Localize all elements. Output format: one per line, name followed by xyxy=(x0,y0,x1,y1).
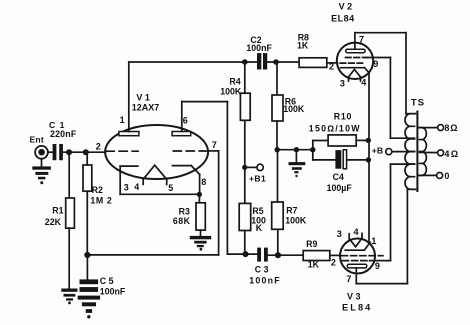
svg-text:4: 4 xyxy=(134,182,139,192)
node I (C3/R7/R9) xyxy=(275,252,281,258)
svg-text:TS: TS xyxy=(411,98,425,109)
wire R7 up to rail xyxy=(277,150,279,202)
pin labels 3 4 5 8 xyxy=(124,177,207,193)
svg-text:V 1: V 1 xyxy=(136,93,150,103)
resistor R3 68K xyxy=(173,203,205,230)
wire node E down to R4 xyxy=(244,62,246,93)
svg-text:7: 7 xyxy=(346,274,351,284)
svg-text:Ent: Ent xyxy=(30,135,44,145)
resistor R7 100K xyxy=(272,202,307,229)
grid 1 dashed line xyxy=(106,150,138,152)
wire plate2 net: pin6 riser down and right xyxy=(227,102,257,255)
node A (C1/R1 junction) xyxy=(66,149,72,155)
wire +B to transformer center tap xyxy=(392,151,414,153)
node G (+B1) xyxy=(242,165,247,170)
svg-text:100K: 100K xyxy=(283,104,305,114)
pin 8 lead xyxy=(199,175,201,195)
cathode riser wire V2-V3 xyxy=(368,73,370,243)
svg-text:3: 3 xyxy=(340,78,345,88)
cathode V2 xyxy=(341,68,370,73)
terminal +B1 xyxy=(249,164,266,183)
wire node F down to R6 xyxy=(276,62,278,95)
ground (R3) xyxy=(190,236,211,251)
terminal +B xyxy=(372,146,392,156)
svg-text:22K: 22K xyxy=(45,217,62,227)
plate bar V2 xyxy=(346,49,365,53)
node H (R5/C3) xyxy=(243,251,249,257)
wire pin 6 plate riser top xyxy=(182,102,228,132)
node E (R4 top) xyxy=(242,59,248,65)
svg-text:100K: 100K xyxy=(220,86,242,96)
svg-text:12AX7: 12AX7 xyxy=(132,102,160,112)
svg-text:4: 4 xyxy=(354,227,359,237)
grid row1 V2 (pin 9) xyxy=(346,57,391,59)
wire node C right to grid2 riser xyxy=(87,254,218,256)
wire grid2 riser up xyxy=(218,151,220,255)
svg-text:1: 1 xyxy=(371,236,376,246)
svg-text:100nF: 100nF xyxy=(246,43,272,53)
svg-text:2: 2 xyxy=(331,257,336,267)
plate bar triode 2 xyxy=(172,132,191,136)
resistor R10 150R/10W xyxy=(309,112,368,150)
grid row2 V3 (pin 9) xyxy=(343,260,370,262)
wire pin 1 up xyxy=(128,62,130,132)
svg-text:3: 3 xyxy=(337,229,342,239)
svg-text:R7: R7 xyxy=(286,205,297,215)
wire R3 to ground xyxy=(200,230,202,236)
resistor R4 100K xyxy=(220,77,250,121)
svg-text:1M 2: 1M 2 xyxy=(90,196,112,206)
svg-text:K: K xyxy=(256,223,263,233)
cathode 1 leg (pin 3) xyxy=(119,166,121,194)
tube V1 12AX7 envelope xyxy=(105,93,208,179)
pin labels 3 4 V3 xyxy=(337,227,359,239)
secondary tap 0 xyxy=(420,171,450,181)
node F (R6 top) xyxy=(273,59,279,65)
capacitor C5 100nF xyxy=(80,276,126,296)
wire node D to R3 xyxy=(198,194,200,202)
svg-text:150Ω/10W: 150Ω/10W xyxy=(309,123,361,133)
capacitor C3 100nF xyxy=(249,248,281,286)
svg-text:R5: R5 xyxy=(252,206,263,216)
svg-text:220nF: 220nF xyxy=(50,129,77,139)
wire C2 to R8 xyxy=(267,61,299,63)
svg-text:R9: R9 xyxy=(306,239,317,249)
svg-text:+B1: +B1 xyxy=(249,173,266,183)
node N (C4/cathode riser) xyxy=(366,157,371,162)
wire node I up to R7 xyxy=(277,229,279,255)
node J (R6/rail) xyxy=(275,147,280,152)
pin 7 wire V2 to transformer xyxy=(355,33,406,114)
node K (rail ground stub) xyxy=(294,147,299,152)
svg-text:1K: 1K xyxy=(297,40,309,50)
svg-text:R10: R10 xyxy=(334,112,352,122)
node D (pin8/R3) xyxy=(197,192,202,197)
svg-text:68K: 68K xyxy=(173,216,191,226)
secondary tap 4 ohm xyxy=(420,149,460,159)
resistor R9 1K xyxy=(303,239,330,270)
input jack Ent xyxy=(30,135,48,159)
wire R2 down to node C xyxy=(86,191,88,255)
svg-text:3: 3 xyxy=(124,183,129,193)
node C (R2/C5/grid2 junction) xyxy=(84,252,90,258)
wire node B down to R2 xyxy=(86,152,88,165)
transformer core xyxy=(416,112,418,192)
ground (C5) xyxy=(78,296,100,319)
svg-text:C4: C4 xyxy=(333,172,344,182)
svg-text:EL84: EL84 xyxy=(331,13,355,23)
wire R6 down to ground rail xyxy=(276,121,278,150)
wire R8 to V2 grid xyxy=(327,62,338,64)
wire R5 down to node H xyxy=(244,231,246,255)
svg-text:V 3: V 3 xyxy=(347,291,361,301)
svg-text:4: 4 xyxy=(361,77,366,87)
ground (input jack) xyxy=(32,159,51,185)
cathode bus wire xyxy=(120,193,199,195)
svg-text:100K: 100K xyxy=(285,215,307,225)
resistor R5 100K xyxy=(239,203,266,233)
cathode 2 bar xyxy=(173,166,200,175)
node B (R2 junction) xyxy=(83,149,89,155)
svg-text:0: 0 xyxy=(444,171,449,181)
capacitor C1 220nF xyxy=(49,120,77,160)
svg-text:2: 2 xyxy=(329,61,334,71)
wire plate1 top rail to C2 xyxy=(129,61,257,63)
wire node C to C5 xyxy=(86,255,88,279)
resistor R8 1K xyxy=(297,32,327,67)
secondary tap 8 ohm xyxy=(420,123,459,133)
svg-text:+B: +B xyxy=(372,146,383,156)
svg-text:9: 9 xyxy=(375,261,380,271)
svg-text:R2: R2 xyxy=(92,185,103,195)
tube V3 EL84 envelope xyxy=(340,239,375,313)
wire jack to C1 xyxy=(48,151,53,153)
wire C3 to node I xyxy=(268,254,303,256)
heater V3 xyxy=(349,233,362,246)
tube V2 EL84 envelope xyxy=(331,1,373,79)
svg-text:4Ω: 4Ω xyxy=(444,149,459,159)
grid 2 dashed line xyxy=(173,150,206,152)
svg-text:2: 2 xyxy=(96,141,101,151)
wire R4 down to +B1 node xyxy=(244,120,246,203)
capacitor C2 100nF xyxy=(246,35,272,70)
svg-text:7: 7 xyxy=(212,140,217,150)
node M (R10/cathode riser) xyxy=(366,138,371,143)
ground (rail) xyxy=(289,150,306,178)
pin labels 3 4 V2 xyxy=(340,77,366,88)
svg-text:6: 6 xyxy=(183,115,188,125)
svg-text:V 2: V 2 xyxy=(339,1,353,11)
svg-text:1K: 1K xyxy=(308,260,320,270)
svg-text:C 3: C 3 xyxy=(255,265,269,275)
ground (R1) xyxy=(61,289,77,305)
svg-text:100nF: 100nF xyxy=(100,286,126,296)
svg-text:100µF: 100µF xyxy=(327,183,353,193)
svg-text:8Ω: 8Ω xyxy=(444,123,458,133)
svg-text:R4: R4 xyxy=(229,77,240,87)
wire node A down to R1 xyxy=(68,152,70,198)
transformer TS secondary winding xyxy=(419,128,427,176)
svg-text:9: 9 xyxy=(373,59,378,69)
pin 7 wire V3 to transformer xyxy=(356,189,407,283)
svg-text:5: 5 xyxy=(168,183,173,193)
heater V1 xyxy=(143,165,167,184)
svg-text:7: 7 xyxy=(359,35,364,45)
capacitor C4 100uF xyxy=(313,150,369,193)
resistor R2 1M2 xyxy=(83,165,112,206)
svg-text:R1: R1 xyxy=(52,206,63,216)
ground rail wire xyxy=(277,149,313,151)
heater V2 xyxy=(349,70,361,82)
wire riser to pin 7 xyxy=(208,150,219,152)
plate bar V3 xyxy=(347,264,367,268)
node L (rail/R10/C4) xyxy=(310,147,315,152)
wire to +B1 terminal xyxy=(245,166,257,168)
resistor R1 22K xyxy=(45,198,75,228)
cathode V3 xyxy=(345,242,370,250)
grid row1 V3 (pin 2) xyxy=(342,255,383,257)
wire R1 to ground xyxy=(68,228,70,289)
wire C1 to grid, node A, node B xyxy=(63,151,106,153)
svg-text:C 5: C 5 xyxy=(100,276,114,286)
resistor R6 100K xyxy=(272,95,305,121)
svg-text:8: 8 xyxy=(201,177,206,187)
transformer TS primary winding xyxy=(405,98,425,190)
svg-text:EL84: EL84 xyxy=(342,303,372,313)
grid row2 V2 (pin 2) xyxy=(340,62,362,64)
pin 9 wire V2 down to primary tap xyxy=(390,58,414,139)
plate bar triode 1 xyxy=(119,132,139,136)
pin 9 wire V3 up to primary tap xyxy=(370,164,415,261)
svg-text:1: 1 xyxy=(120,115,125,125)
svg-text:100nF: 100nF xyxy=(249,275,281,285)
cathode 1 bar xyxy=(120,165,138,167)
wire R9 to V3 grid xyxy=(330,254,341,256)
